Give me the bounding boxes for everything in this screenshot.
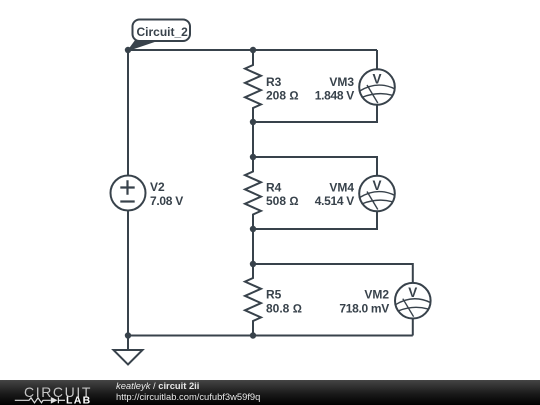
svg-text:V: V: [372, 178, 381, 193]
svg-text:R3: R3: [266, 75, 282, 89]
svg-text:V: V: [372, 72, 381, 87]
svg-text:R4: R4: [266, 181, 282, 195]
svg-text:VM4: VM4: [329, 181, 354, 195]
svg-text:VM3: VM3: [329, 75, 354, 89]
svg-text:4.514 V: 4.514 V: [315, 194, 355, 208]
svg-text:R5: R5: [266, 288, 282, 302]
svg-text:80.8 Ω: 80.8 Ω: [266, 302, 302, 316]
svg-text:V2: V2: [150, 180, 165, 194]
svg-text:V: V: [408, 285, 417, 300]
svg-text:208 Ω: 208 Ω: [266, 89, 299, 103]
svg-text:7.08 V: 7.08 V: [150, 194, 183, 208]
svg-text:508 Ω: 508 Ω: [266, 194, 299, 208]
svg-text:718.0 mV: 718.0 mV: [339, 302, 389, 316]
svg-text:1.848 V: 1.848 V: [315, 89, 355, 103]
svg-text:LAB: LAB: [66, 395, 91, 405]
svg-text:VM2: VM2: [364, 288, 389, 302]
svg-text:Circuit_2: Circuit_2: [137, 25, 189, 39]
